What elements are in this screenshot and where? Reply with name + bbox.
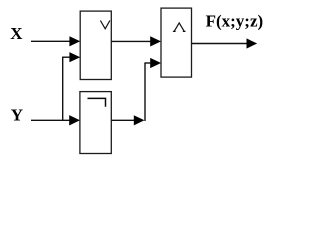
svg-text:X: X <box>10 24 23 43</box>
wire U1 output to U3 input 1 <box>111 36 161 46</box>
wire riser from U2 output up to U3 input 2 <box>144 63 146 121</box>
NOT gate box U2 <box>80 92 111 154</box>
AND symbol in U3 <box>173 23 186 32</box>
OR symbol in U1 <box>100 21 110 29</box>
NOT symbol in U2 <box>88 98 106 106</box>
svg-text:F(x;y;z): F(x;y;z) <box>206 12 264 31</box>
wire branch riser from Y line up to U1 input 2 <box>62 57 64 121</box>
wire U3 output to F <box>192 38 258 48</box>
wire stub into U1 input 2 <box>62 52 80 62</box>
wire Y to U2 input <box>31 115 80 125</box>
svg-text:Y: Y <box>11 106 23 125</box>
OR gate box U1 <box>80 11 111 79</box>
AND gate box U3 <box>161 8 192 77</box>
wire X to U1 input 1 <box>31 36 80 46</box>
wire U2 output to riser corner <box>111 115 144 125</box>
wire stub into U3 input 2 <box>144 58 161 68</box>
